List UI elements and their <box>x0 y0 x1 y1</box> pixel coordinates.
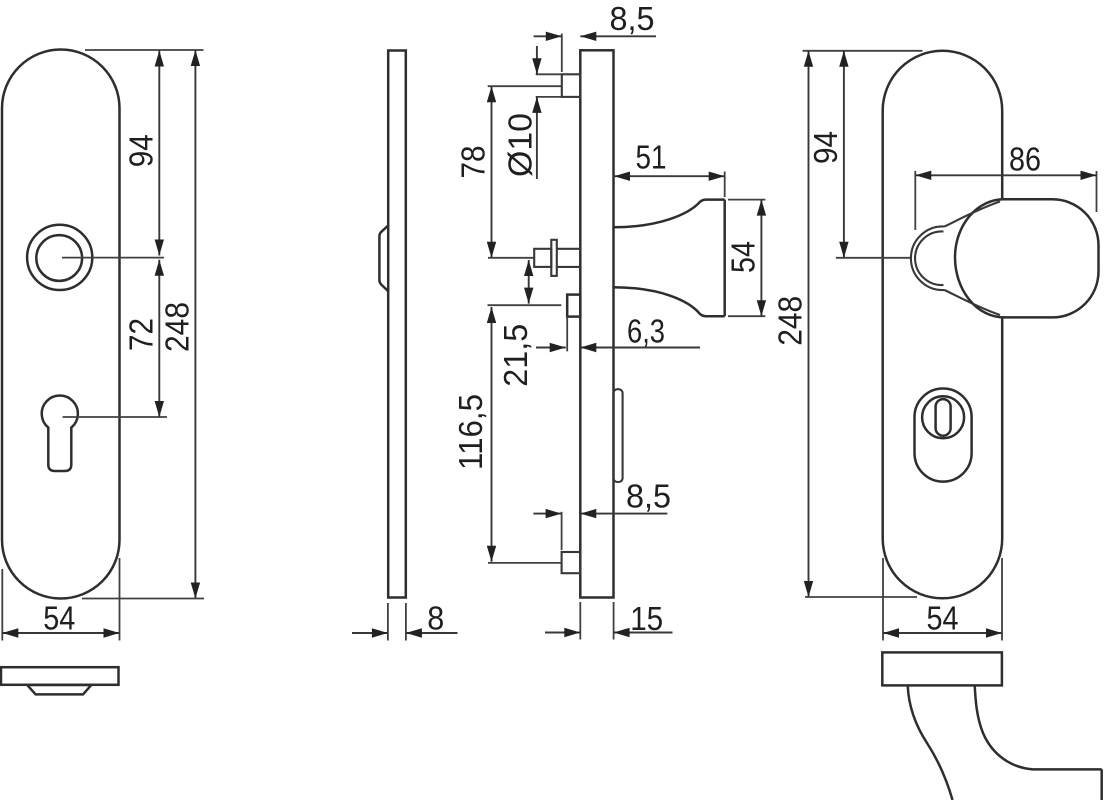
86 extension line right <box>1096 171 1098 212</box>
54 right extension line right <box>1001 558 1003 641</box>
screw 2 shaft lines <box>557 248 581 250</box>
dimension 78 <box>491 86 493 258</box>
54 section extension lines <box>728 199 765 201</box>
plate side view <box>388 51 406 598</box>
dimension 94 line <box>158 51 160 256</box>
knob neck bottom curve <box>945 290 1001 315</box>
8 extension line left <box>387 603 389 641</box>
screw 2 head <box>534 249 551 267</box>
svg-text:248: 248 <box>160 302 197 352</box>
svg-text:54: 54 <box>43 601 75 638</box>
knob neck collar outer <box>911 226 945 290</box>
knob right edge <box>723 200 726 317</box>
svg-text:248: 248 <box>773 296 810 346</box>
dimension 54 line <box>2 632 119 634</box>
dimension 248 line <box>194 50 196 599</box>
plate front view (inside escutcheon) <box>2 50 120 599</box>
54 extension line left <box>1 569 3 641</box>
rosette key slot <box>936 399 951 436</box>
dimension 6,3 <box>536 347 566 349</box>
svg-text:78: 78 <box>455 146 492 179</box>
dimension 21,5 <box>528 260 530 304</box>
svg-text:54: 54 <box>725 241 762 273</box>
svg-text:8: 8 <box>427 601 444 638</box>
knob bottom contour <box>614 287 725 316</box>
cylinder reference line <box>488 304 562 306</box>
screw 2 washer <box>551 240 557 276</box>
knob body <box>955 199 1099 317</box>
cylinder housing step <box>567 295 580 317</box>
screw 1 head reference line top <box>536 73 562 75</box>
dimension 54 section <box>760 200 762 317</box>
8,5 top extension line <box>561 34 563 72</box>
54 extension line right <box>119 558 121 641</box>
svg-text:94: 94 <box>808 131 845 164</box>
bottom extension line <box>82 598 204 600</box>
knob center line <box>836 257 911 259</box>
strike bar <box>613 389 622 482</box>
top extension line <box>85 49 204 51</box>
plate front view (outside, with knob) <box>883 51 1003 599</box>
dimension 86 <box>915 174 1096 176</box>
plate cross-section <box>580 50 613 597</box>
keyhole cylinder cutout <box>42 396 78 471</box>
dimension 8,5 bottom <box>533 513 561 515</box>
end view bar right <box>882 652 1002 685</box>
15 extension line right <box>613 602 615 640</box>
dimension 248 right <box>808 51 810 597</box>
dimension 15 <box>545 632 580 634</box>
spindle hole outer circle <box>27 225 92 290</box>
screw 3 center line <box>488 562 562 564</box>
screw 1 head reference line bottom <box>536 96 562 98</box>
dimension 94 right <box>843 51 845 258</box>
knob neck top curve <box>945 202 1001 227</box>
keyhole center line <box>63 416 168 418</box>
screw 3 head <box>562 552 581 573</box>
spindle hole inner circle <box>36 235 82 281</box>
6,3 extension line <box>566 317 568 352</box>
spindle hole center line <box>62 257 164 259</box>
svg-text:116,5: 116,5 <box>453 394 490 470</box>
svg-text:15: 15 <box>630 601 663 638</box>
dimension 54 right <box>883 632 1002 634</box>
dimension 8,5 top <box>534 35 562 37</box>
knob neck collar inner <box>915 231 943 285</box>
svg-text:8,5: 8,5 <box>626 478 671 515</box>
knob top contour <box>614 200 725 228</box>
side view boss bump <box>379 226 388 292</box>
bottom extension line right <box>805 596 917 598</box>
svg-text:54: 54 <box>927 601 959 638</box>
svg-text:86: 86 <box>1009 142 1041 179</box>
86 extension line left <box>914 171 916 230</box>
dimension 116,5 <box>491 307 493 562</box>
svg-text:Ø10: Ø10 <box>503 113 540 177</box>
lever outer curve <box>908 685 953 800</box>
end view dome <box>27 685 91 694</box>
dia 10 lower arrow <box>536 97 538 179</box>
dia 10 upper arrow <box>536 46 538 74</box>
security rosette outline <box>915 389 972 482</box>
svg-text:8,5: 8,5 <box>610 1 655 38</box>
end view bar <box>1 667 119 685</box>
screw 1 center line <box>488 85 562 87</box>
rosette cylinder circle <box>922 396 964 438</box>
svg-text:72: 72 <box>123 318 160 351</box>
lever inner curve <box>975 685 1102 769</box>
screw 1 head <box>562 74 581 97</box>
screw 2 center line <box>488 257 534 259</box>
svg-text:51: 51 <box>636 140 667 177</box>
8,5 bottom extension line <box>561 512 563 550</box>
top extension line right <box>803 50 923 52</box>
8 extension line right <box>405 603 407 641</box>
dimension 8 arrows <box>352 632 388 634</box>
dimension 51 <box>724 172 726 198</box>
svg-text:94: 94 <box>123 134 160 167</box>
dimension 72 line <box>158 260 160 417</box>
lever end line <box>1100 769 1103 800</box>
svg-text:6,3: 6,3 <box>627 314 665 351</box>
15 extension line left <box>579 602 581 640</box>
svg-text:21,5: 21,5 <box>498 324 535 387</box>
54 right extension line left <box>882 558 884 641</box>
